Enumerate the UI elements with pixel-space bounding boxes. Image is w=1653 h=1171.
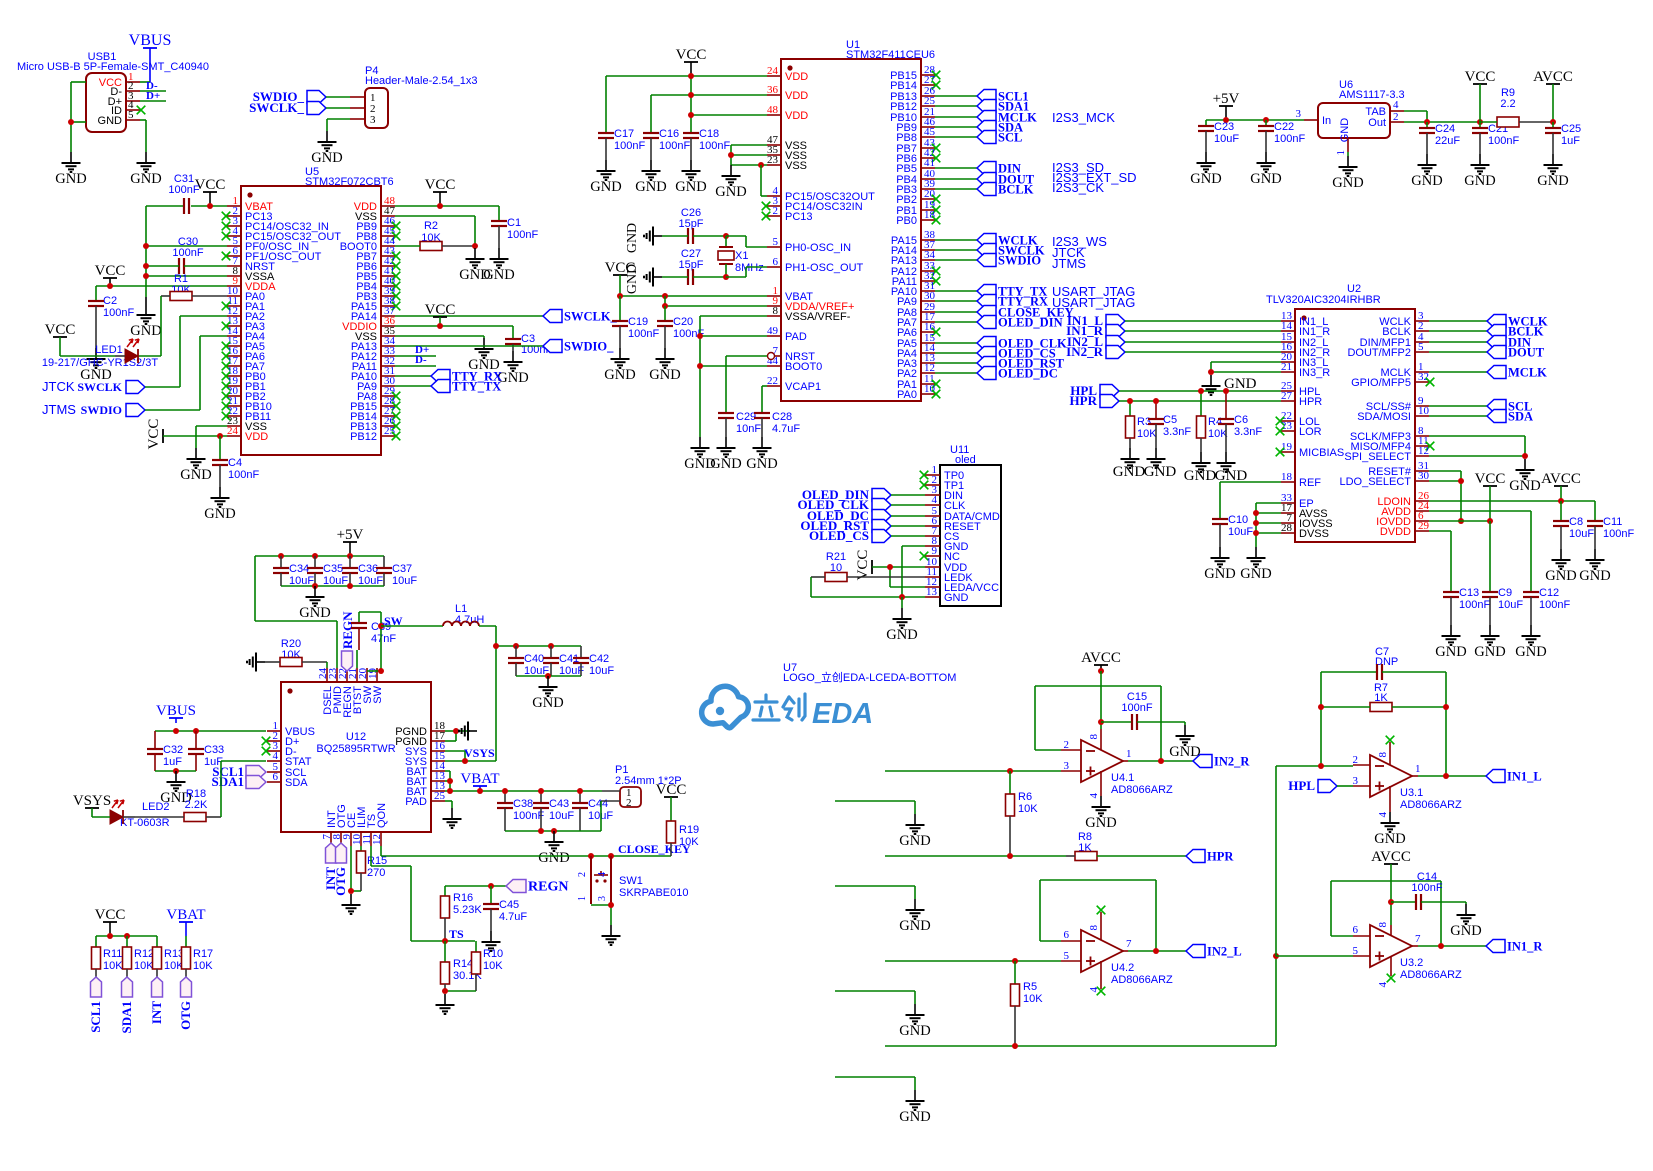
svg-text:GND: GND: [1113, 464, 1146, 480]
wire bottom rail of VSYS caps: [516, 675, 581, 677]
svg-text:IN2_R: IN2_R: [1066, 344, 1103, 359]
capacitor C27 15pF: [662, 248, 726, 285]
junction DVSS: [1253, 530, 1259, 536]
wire pin8 GND down: [902, 546, 925, 597]
pin 30 LDO_SELECT of U2: [1339, 470, 1429, 488]
svg-text:10nF: 10nF: [736, 423, 761, 435]
svg-text:VBUS: VBUS: [156, 703, 196, 719]
svg-text:8: 8: [1088, 734, 1100, 740]
junction vbat gnd2: [551, 828, 557, 834]
junction IN3: [1208, 369, 1214, 375]
svg-text:OLED_CS: OLED_CS: [809, 528, 869, 543]
svg-text:100nF: 100nF: [168, 184, 199, 196]
svg-text:U12: U12: [346, 731, 366, 743]
svg-text:HPR: HPR: [1207, 850, 1234, 864]
junction CE-R15: [348, 888, 354, 894]
wire SWCLK to PA2: [145, 316, 227, 387]
pin 39 PB3 of U1: [896, 178, 935, 196]
pin 3 PC14/OSC32_IN of U5: [222, 215, 329, 233]
power flag VCC for IOVDD: [1475, 471, 1506, 521]
pin 46 PB9 of U5: [356, 215, 400, 233]
svg-text:10K: 10K: [193, 960, 213, 972]
capacitor C3 100nF: [505, 326, 552, 356]
pin 1 VCC of USB1: [99, 71, 140, 89]
svg-text:SWCLK_: SWCLK_: [249, 100, 304, 115]
svg-text:GND: GND: [1085, 815, 1116, 831]
capacitor C10 10uF: [1212, 514, 1253, 547]
rotated ground for PGND: [459, 722, 477, 741]
svg-text:D+: D+: [146, 90, 160, 102]
pin 7 NRST of U1: [767, 345, 815, 363]
resistor R7 1K: [1321, 682, 1446, 712]
wire USB1 shell to ground: [71, 82, 86, 152]
junction gnd rail: [312, 583, 318, 589]
svg-text:SCL: SCL: [998, 131, 1022, 145]
capacitor C36 10uF: [342, 556, 383, 587]
svg-text:TS: TS: [449, 927, 464, 941]
wire VBAT to P1 pin1: [602, 790, 620, 792]
svg-text:2.2: 2.2: [1500, 98, 1515, 110]
junction VSS: [728, 152, 734, 158]
svg-text:SWDIO_: SWDIO_: [564, 340, 614, 354]
power flag VBAT for R17: [166, 907, 205, 936]
wire U6 GND pin to ground: [1347, 152, 1349, 156]
svg-text:SPI_SELECT: SPI_SELECT: [1344, 451, 1411, 463]
ground stub 3: [899, 1004, 930, 1039]
net flag SWDIO_ from PA13: [395, 340, 614, 354]
capacitor C28 4.7uF: [754, 411, 800, 437]
pin 32 PA11 of U1: [892, 270, 941, 288]
pin 14 IN1_R of U2: [1281, 320, 1330, 338]
svg-text:C19: C19: [628, 316, 648, 328]
svg-text:GND: GND: [899, 918, 930, 934]
net flag SDA1 below R12: [119, 977, 134, 1034]
svg-text:BCLK: BCLK: [998, 183, 1034, 197]
wire U3.1 pin2 net: [1276, 766, 1353, 956]
junction VBUS flag: [173, 728, 179, 734]
junction PAD: [697, 333, 703, 339]
capacitor C8 10uF: [1553, 501, 1594, 549]
svg-text:100nF: 100nF: [1459, 599, 1490, 611]
svg-text:10uF: 10uF: [589, 665, 614, 677]
svg-text:PAD: PAD: [785, 331, 807, 343]
svg-text:+5V: +5V: [1213, 91, 1240, 107]
svg-text:GND: GND: [459, 267, 490, 283]
svg-text:IN3_R: IN3_R: [1299, 367, 1330, 379]
net flag SCL from U1: [935, 131, 1022, 145]
wire VSS23 to PC15 pin: [761, 165, 767, 196]
pin 21 PB10 of U1: [890, 106, 935, 124]
svg-text:TTY_TX: TTY_TX: [452, 380, 501, 394]
ground under C4: [204, 487, 235, 522]
svg-text:VDD: VDD: [785, 71, 808, 83]
pin 14 BAT of U12: [406, 760, 445, 778]
net flag MCLK from U2: [1429, 366, 1547, 380]
ground under C3: [497, 351, 528, 386]
svg-text:HPL: HPL: [1288, 778, 1315, 793]
svg-text:VCC: VCC: [425, 302, 456, 318]
pin 14 PA4 of U1: [897, 342, 935, 360]
net flag SCL1 from U1: [935, 90, 1029, 104]
net flag SWCLK from U1: [935, 244, 1045, 258]
LED2 KT-0603R: [92, 800, 170, 829]
ground under P4: [311, 131, 342, 166]
rotated power flag VCC for U5 VDD24: [146, 419, 163, 450]
junction IOVSS: [1253, 520, 1259, 526]
pin 9 CE of U12: [341, 813, 358, 846]
svg-text:LED1: LED1: [95, 344, 123, 356]
svg-text:8MHz: 8MHz: [735, 262, 764, 274]
svg-text:10uF: 10uF: [392, 575, 417, 587]
wire C27 to PH1-OSC_OUT: [726, 267, 767, 277]
svg-text:VSS: VSS: [785, 160, 807, 172]
pin 17 PA7 of U5: [222, 355, 265, 373]
svg-text:4: 4: [1377, 812, 1389, 818]
svg-text:U3.2: U3.2: [1400, 957, 1423, 969]
capacitor C9 10uF: [1482, 587, 1523, 625]
junction U4.1 out: [1158, 758, 1164, 764]
wire NRST to C29: [726, 353, 775, 414]
pin 36 VDD of U1: [767, 84, 808, 102]
junction C34: [278, 553, 284, 559]
pin 12 PA2 of U5: [227, 305, 265, 323]
pin 41 PB5 of U5: [356, 265, 400, 283]
pin 10 PA0 of U1: [897, 383, 940, 401]
svg-text:10K: 10K: [679, 836, 699, 848]
resistor R12 10K: [123, 936, 155, 977]
svg-text:GND: GND: [1224, 376, 1257, 392]
capacitor C6 3.3nF on HPL: [1218, 391, 1262, 452]
pin 32 PA11 of U5: [352, 355, 395, 373]
capacitor C5 3.3nF on HPR: [1148, 401, 1191, 448]
svg-text:27: 27: [1281, 390, 1293, 402]
junction C45: [488, 883, 494, 889]
svg-text:GND: GND: [311, 150, 342, 166]
svg-text:100nF: 100nF: [1603, 528, 1634, 540]
svg-text:10K: 10K: [1023, 993, 1043, 1005]
pin 40 PB4 of U1: [896, 168, 935, 186]
junction VCC rail: [107, 933, 113, 939]
pin 15 SYS of U12: [405, 750, 446, 768]
pin 21 BTST of U12: [347, 668, 364, 714]
resistor R1 10K: [161, 273, 227, 301]
ground under C11: [1579, 549, 1610, 584]
LED1 19-217/GHC-YR1S2/3T: [42, 339, 158, 369]
svg-text:49: 49: [767, 325, 779, 337]
ground under C24: [1411, 154, 1442, 189]
svg-text:3: 3: [370, 114, 376, 126]
power flag +5V for charger: [337, 527, 364, 556]
wire DVDD to C13: [1429, 531, 1451, 592]
junction TS: [442, 938, 448, 944]
pin 8 VSSA/VREF- of U1: [767, 305, 851, 323]
svg-text:C25: C25: [1561, 123, 1581, 135]
svg-text:100nF: 100nF: [1121, 702, 1152, 714]
capacitor C43 10uF: [533, 791, 574, 831]
svg-text:C22: C22: [1274, 121, 1294, 133]
pin 25 PB12 of U1: [890, 95, 935, 113]
wire IN3_L to ground: [1211, 362, 1281, 372]
junction C43: [538, 788, 544, 794]
net flag IN1_R to U2: [1066, 323, 1281, 338]
pin 12 PA2 of U1: [897, 362, 935, 380]
wire VDDIO row: [395, 325, 513, 327]
net flag DOUT from U2: [1429, 346, 1545, 360]
svg-text:8: 8: [1377, 922, 1389, 928]
net flag TTY_RX from PA10: [395, 370, 502, 384]
svg-text:C12: C12: [1539, 587, 1559, 599]
pin 35 VSS of U1: [767, 144, 807, 162]
svg-text:C37: C37: [392, 563, 412, 575]
svg-text:MCLK: MCLK: [1508, 366, 1547, 380]
pin 4 PC15/OSC32OUT of U1: [767, 185, 875, 203]
junction R5 top: [1012, 958, 1018, 964]
pin 29 DVDD of U2: [1380, 520, 1430, 538]
resistor R18 2.2K: [135, 788, 221, 822]
net flag OLED_CLK from U1: [935, 337, 1067, 351]
svg-text:U4.1: U4.1: [1111, 772, 1134, 784]
junction VSS23: [758, 162, 764, 168]
svg-text:C17: C17: [614, 128, 634, 140]
svg-text:R10: R10: [483, 948, 503, 960]
wire P4 pin3 to ground: [327, 119, 350, 131]
wire VDD row U11: [890, 567, 925, 587]
wire EP/AVSS/IOVSS/DVSS chain: [1256, 503, 1281, 547]
svg-text:VCC: VCC: [1465, 69, 1496, 85]
svg-text:JTCK: JTCK: [42, 379, 75, 394]
net flag SWCLK_: [249, 100, 326, 115]
pin 24 VDD of U5: [227, 425, 268, 443]
capacitor C2 100nF: [88, 286, 134, 348]
svg-text:GND: GND: [899, 833, 930, 849]
resistor R14 30.1K: [441, 941, 483, 991]
wire VSSA chain: [700, 316, 767, 437]
svg-text:PH1-OSC_OUT: PH1-OSC_OUT: [785, 262, 864, 274]
ground under R14: [436, 994, 455, 1014]
wire PA12 D+ net: [395, 344, 436, 356]
net flag IN2_R: [1193, 755, 1250, 769]
wire PAD row: [700, 335, 767, 337]
resistor R19 10K: [667, 821, 700, 856]
junction SW1 gnd: [608, 902, 614, 908]
svg-text:C42: C42: [589, 653, 609, 665]
resistor R16 5.23K: [441, 886, 483, 941]
pin 37 PA14 of U1: [891, 239, 936, 257]
wire VDD24 row: [163, 435, 227, 437]
svg-text:SW1: SW1: [619, 875, 643, 887]
pin 12 SPI_SELECT of U2: [1344, 445, 1429, 463]
pin 5 PF0/OSC_IN of U5: [227, 235, 309, 253]
pin 9 NC of U11: [920, 545, 960, 563]
wire D- net: [140, 80, 166, 92]
ground under C23: [1190, 152, 1221, 187]
resistor R5 10K: [1011, 961, 1044, 1046]
svg-text:VCC: VCC: [1475, 471, 1506, 487]
junction R6 bottom: [1007, 853, 1013, 859]
svg-text:LED2: LED2: [142, 801, 170, 813]
pin 42 PB6 of U1: [896, 147, 940, 165]
junction VSYS rail: [493, 643, 499, 649]
power flag VCC for R19: [656, 782, 687, 821]
pin 24 AVDD of U2: [1381, 500, 1429, 518]
pin 4 TAB of U6: [1390, 99, 1404, 111]
pin 20 PB2 of U1: [896, 188, 940, 206]
svg-text:AVCC: AVCC: [1533, 69, 1573, 85]
pin 17 PA7 of U1: [897, 311, 935, 329]
pin 31 PA10 of U5: [351, 365, 395, 383]
resistor R20 10K on DSEL: [265, 638, 327, 667]
svg-text:OTG: OTG: [333, 867, 348, 896]
wire LDOIN row: [1429, 500, 1595, 502]
power flag VBAT: [460, 771, 499, 791]
ground under R4: [1184, 452, 1217, 484]
svg-text:VCC: VCC: [425, 177, 456, 193]
svg-text:BOOT0: BOOT0: [785, 361, 822, 373]
svg-text:GND: GND: [1204, 566, 1235, 582]
junction BAT: [447, 778, 453, 784]
svg-text:270: 270: [367, 867, 385, 879]
junction VSSA bus: [143, 273, 149, 279]
svg-text:VSYS: VSYS: [464, 746, 495, 760]
svg-text:X1: X1: [735, 250, 748, 262]
ground stub 2: [899, 899, 930, 934]
svg-text:10uF: 10uF: [1569, 528, 1594, 540]
svg-text:23: 23: [1281, 420, 1293, 432]
svg-text:SDA/MOSI: SDA/MOSI: [1357, 411, 1411, 423]
svg-text:GND: GND: [1144, 464, 1177, 480]
pin 42 PB6 of U5: [356, 255, 400, 273]
wire VDDA row U1: [665, 296, 767, 306]
svg-text:PC13: PC13: [785, 211, 813, 223]
rotated ground for C26: [625, 223, 662, 253]
pin 1 VBAT of U5: [227, 195, 273, 213]
pin 33 PA12 of U1: [891, 260, 940, 278]
svg-text:GND: GND: [899, 1023, 930, 1039]
svg-text:QON: QON: [376, 803, 388, 828]
ground under C5: [1144, 448, 1177, 480]
pin 24 VDD of U1: [767, 65, 808, 83]
wire VBAT row U1: [620, 295, 767, 297]
switch SW1 SKRPABE010: [577, 856, 689, 904]
pin 10 PA0 of U5: [227, 285, 265, 303]
net flag OLED_DC from U1: [935, 367, 1058, 381]
pin 5 SCL of U12: [267, 761, 306, 779]
pin 35 VSS of U5: [355, 325, 396, 343]
pin 22 VCAP1 of U1: [767, 375, 821, 393]
junction R7 right: [1443, 704, 1449, 710]
svg-text:10uF: 10uF: [549, 810, 574, 822]
ground under VSSA chain: [684, 437, 715, 472]
svg-text:15pF: 15pF: [678, 259, 703, 271]
junction VDDIO-VCC: [437, 323, 443, 329]
ground under SW1: [602, 925, 621, 945]
wire U4.2 output: [1128, 950, 1186, 952]
svg-text:GND: GND: [299, 605, 330, 621]
pin 6 PH1-OSC_OUT of U1: [767, 256, 864, 274]
net flag INT below U12: [323, 843, 338, 890]
ground under U11: [886, 597, 917, 643]
junction VDD48-VCC: [437, 203, 443, 209]
svg-text:BQ25895RTWR: BQ25895RTWR: [316, 743, 395, 755]
inductor L1 4.7uH: [443, 603, 484, 626]
svg-text:100nF: 100nF: [699, 140, 730, 152]
svg-text:SWCLK: SWCLK: [77, 380, 122, 394]
pin 33 EP of U2: [1281, 492, 1314, 510]
svg-text:SDA1: SDA1: [119, 1001, 134, 1034]
pin 23 PMID of U12: [327, 668, 344, 714]
svg-text:GND: GND: [899, 1109, 930, 1125]
capacitor C34 10uF: [273, 556, 314, 587]
svg-text:3.3nF: 3.3nF: [1163, 426, 1191, 438]
ground under R2: [459, 248, 490, 283]
ground under C32 C33: [160, 771, 191, 806]
pin 3 of P4: [350, 114, 376, 126]
pin 3 D+ of USB1: [108, 90, 140, 108]
svg-text:VDD: VDD: [245, 431, 268, 443]
ground under VSS23: [180, 448, 211, 483]
net flag BCLK from U2: [1429, 325, 1544, 339]
capacitor C30 100nF on NRST row: [146, 236, 227, 274]
capacitor C7 DNP: [1321, 646, 1446, 680]
junction R5 bottom: [1012, 1043, 1018, 1049]
resistor R8 1K: [1066, 831, 1186, 861]
ground under C22: [1250, 152, 1281, 187]
svg-text:HPR: HPR: [1070, 393, 1098, 408]
junction LDO_SELECT: [1458, 478, 1464, 484]
svg-text:GND: GND: [1450, 923, 1481, 939]
capacitor C11 100nF: [1587, 501, 1634, 549]
pin 6 RESET of U11: [925, 515, 981, 533]
ground under C18: [675, 160, 706, 195]
junction VDDA: [662, 303, 668, 309]
crystal X1 8MHz: [718, 236, 764, 277]
ground under USB1 pin5: [130, 152, 161, 187]
svg-text:C18: C18: [699, 128, 719, 140]
junction VSS47-R2: [472, 243, 478, 249]
rotated ground for C27: [625, 264, 662, 294]
pin 11 PA1 of U5: [222, 295, 265, 313]
svg-text:6: 6: [773, 256, 779, 268]
wire VCC pullup rail: [96, 935, 157, 937]
svg-text:C1: C1: [507, 217, 521, 229]
svg-text:24: 24: [767, 65, 779, 77]
junction SW1 pin4: [608, 853, 614, 859]
junction VCC-VBAT: [207, 203, 213, 209]
svg-text:R12: R12: [134, 948, 154, 960]
pin 1 GND of U6: [1335, 138, 1348, 156]
svg-text:1: 1: [1335, 150, 1347, 156]
pin 38 PA15 of U1: [891, 229, 936, 247]
svg-text:GND: GND: [710, 456, 741, 472]
svg-text:GND: GND: [649, 367, 680, 383]
wire AVCC to U3.2 pin8: [1390, 864, 1392, 925]
pin 45 PB8 of U5: [356, 225, 400, 243]
wire bottom rail C32 C33: [155, 770, 196, 772]
svg-text:KT-0603R: KT-0603R: [120, 817, 170, 829]
svg-text:3: 3: [1296, 108, 1302, 120]
junction R4-HPL: [1198, 388, 1204, 394]
svg-text:4.7uF: 4.7uF: [499, 911, 527, 923]
pin 2 D- of USB1: [110, 80, 140, 98]
svg-text:AD8066ARZ: AD8066ARZ: [1400, 969, 1462, 981]
pin 21 PB10 of U5: [222, 395, 272, 413]
junction U3.1 out: [1443, 773, 1449, 779]
junction C6-HPL: [1223, 388, 1229, 394]
ground under EP chain: [1240, 547, 1271, 582]
capacitor C13 100nF: [1443, 587, 1490, 625]
wire VDDA row: [96, 285, 227, 287]
capacitor C41 10uF: [543, 646, 584, 677]
